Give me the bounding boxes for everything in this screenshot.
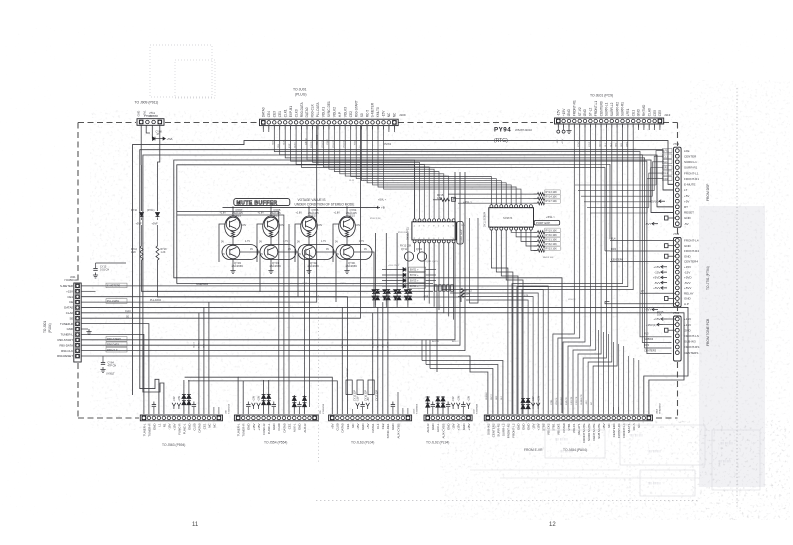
- connector JT16 pin: [675, 286, 679, 290]
- diode pair BY14 left: [404, 296, 408, 300]
- svg-text:GND: GND: [187, 424, 191, 431]
- connector JT12 pin: [675, 182, 679, 186]
- wire: [668, 217, 675, 219]
- svg-text:+15V: +15V: [253, 395, 256, 401]
- connector J001 pin: [75, 289, 79, 293]
- wire: [613, 407, 615, 414]
- IC IY01 bottom pin: [447, 240, 450, 243]
- wire J109 stub: [393, 126, 395, 132]
- wire CE1: [81, 297, 347, 414]
- wire J113 pin stub: [643, 124, 645, 128]
- power arrow -5V: [652, 222, 658, 225]
- svg-text:RY13 10K: RY13 10K: [400, 245, 412, 248]
- connector JT16 pin: [675, 276, 679, 280]
- svg-text:+15V: +15V: [178, 395, 181, 401]
- wire CY13 top: [96, 262, 127, 264]
- connector JT12 pin: [675, 188, 679, 192]
- wire J109 to IC2: [356, 126, 496, 205]
- svg-text:47P CH: 47P CH: [108, 364, 117, 367]
- net label PLL-DATA: [106, 299, 127, 304]
- junction dot on +B bus: [308, 207, 310, 209]
- wire frame loop to IC1: [177, 165, 415, 284]
- wire to resistor: [534, 202, 538, 204]
- svg-text:SURR-L1: SURR-L1: [684, 160, 697, 164]
- diode pair element: [526, 399, 530, 403]
- svg-text:NC: NC: [387, 112, 391, 117]
- capacitor CY17 box: [368, 380, 374, 395]
- wire JA54 riser: [628, 356, 630, 414]
- wire diode out: [157, 218, 159, 221]
- wire J109 pin stub: [393, 126, 395, 130]
- IC IY01 bottom pin: [433, 240, 436, 243]
- svg-text:R90-CLK: R90-CLK: [311, 103, 315, 117]
- svg-text:B: B: [452, 198, 454, 202]
- svg-text:SURR-L1: SURR-L1: [605, 102, 609, 116]
- wire to diode: [382, 269, 403, 271]
- wire: [362, 407, 364, 414]
- svg-text:VOLK2: VOLK2: [333, 107, 337, 118]
- diode pair AY04 right: [408, 290, 412, 294]
- connector J001 pin: [75, 284, 79, 288]
- wire DATA0 riser: [203, 307, 205, 414]
- IC SC9674 top pin: [515, 205, 518, 208]
- svg-text:RHTMD: RHTMD: [642, 104, 646, 116]
- svg-text:CLK1: CLK1: [283, 109, 287, 117]
- wire: [557, 124, 559, 130]
- wire through diode pair: [396, 283, 398, 305]
- svg-text:SURR-R1: SURR-R1: [684, 166, 698, 170]
- svg-text:STB: STB: [524, 295, 529, 297]
- svg-text:TO JL63 (PL04): TO JL63 (PL04): [351, 441, 374, 445]
- wire net LFE1: [575, 151, 663, 185]
- wire AUX-CYBS riser: [397, 392, 399, 414]
- wire J109 pin stub: [333, 126, 335, 130]
- svg-text:BY02 +: BY02 +: [410, 273, 419, 277]
- svg-text:CE1: CE1: [202, 423, 206, 429]
- label box PORT EXP vertical: [457, 222, 463, 245]
- wire to resistor: [534, 245, 538, 247]
- wire nest hook: [429, 340, 431, 369]
- connector JL92: [424, 415, 472, 421]
- svg-text:FROM TONE PCB: FROM TONE PCB: [706, 318, 710, 346]
- svg-text:DATA0: DATA0: [262, 107, 266, 117]
- wire J109 stub: [388, 126, 390, 132]
- resistor RY15 1.5K: [441, 198, 450, 201]
- svg-text:IY01: IY01: [461, 225, 466, 227]
- svg-text:RELAY1: RELAY1: [577, 423, 581, 434]
- ground mute cell: [268, 268, 273, 274]
- wire to diode pair: [396, 233, 398, 283]
- wire TUNER-L: [81, 334, 144, 414]
- svg-text:+5VL <: +5VL <: [378, 198, 387, 202]
- connector JT12 pin: [675, 222, 679, 226]
- wire nest to JA54 pin4: [422, 361, 503, 415]
- svg-text:-15V: -15V: [684, 270, 690, 274]
- wire DATA0 deep drop: [177, 215, 284, 414]
- wire: [153, 407, 155, 414]
- voltage feed arrow: [467, 403, 471, 409]
- svg-text:CENTER4: CENTER4: [612, 423, 616, 437]
- wire nest hook: [421, 340, 423, 361]
- resistor RY32: [538, 244, 545, 247]
- IC IY01 top pin: [447, 219, 450, 222]
- wire diode pair to bus: [375, 305, 377, 307]
- svg-text:CL11: CL11: [349, 180, 355, 182]
- svg-text:CENT MUTE: CENT MUTE: [592, 423, 596, 440]
- resistor RY17: [538, 202, 545, 205]
- connector JT15 pin: [675, 323, 679, 327]
- svg-text:SURR-R2: SURR-R2: [496, 423, 500, 436]
- svg-text:SUB-W3: SUB-W3: [684, 340, 696, 344]
- svg-text:DATA0: DATA0: [341, 423, 345, 432]
- svg-text:-15V: -15V: [382, 110, 386, 118]
- wire JA54 riser: [623, 346, 625, 414]
- wire net CL1: [578, 156, 663, 190]
- svg-text:CE1: CE1: [287, 423, 291, 429]
- wire JT11 pin1 to DY10: [140, 126, 142, 166]
- connector JT16 pin: [675, 239, 679, 243]
- net label R90-CLK: [106, 347, 127, 352]
- svg-text:TO J909 (P911): TO J909 (P911): [135, 101, 159, 105]
- arrow +5VL: [163, 137, 165, 140]
- svg-text:+15V: +15V: [684, 317, 691, 321]
- svg-text:0V/X2: 0V/X2: [384, 142, 392, 146]
- capacitor CY10 box: [346, 380, 352, 395]
- net stub SL1: [663, 160, 673, 164]
- wire J109 to IC2: [367, 126, 506, 205]
- svg-text:CE1: CE1: [278, 111, 282, 117]
- wire net CR1: [590, 179, 663, 213]
- svg-text:-5VY: -5VY: [645, 308, 652, 312]
- svg-text:0V: 0V: [260, 253, 263, 256]
- wire net FR4: [610, 250, 675, 252]
- connector JT16 pin: [675, 302, 679, 306]
- wire JA54 riser staircase: [466, 300, 528, 414]
- svg-text:CY18 5P: CY18 5P: [347, 368, 349, 377]
- svg-text:+5VF: +5VF: [152, 222, 159, 226]
- label BY04: [409, 284, 426, 289]
- terminal box B: [452, 197, 456, 201]
- wire J113 pin stub: [616, 124, 618, 128]
- svg-text:PLL-DATA: PLL-DATA: [107, 299, 119, 303]
- wire RELAY net: [640, 292, 675, 294]
- net stub CL1: [663, 154, 673, 158]
- wire E-MUTE stub: [668, 183, 674, 185]
- wire +B bus: [223, 206, 378, 208]
- svg-text:GND: GND: [247, 424, 251, 431]
- wire +B to transistor: [232, 207, 234, 216]
- IC SC9674 top pin: [510, 205, 513, 208]
- diode pair AY02 left: [383, 290, 387, 294]
- svg-text:FROM E-VR: FROM E-VR: [524, 448, 543, 452]
- wire J113 stub: [659, 124, 661, 130]
- voltage feed arrow: [451, 403, 455, 409]
- diode pair element: [182, 401, 186, 405]
- capacitor: [431, 405, 435, 407]
- svg-text:GND: GND: [684, 297, 692, 301]
- resistor RY22: [461, 289, 464, 298]
- svg-text:0V: 0V: [288, 248, 291, 251]
- svg-text:SUBW3: SUBW3: [644, 337, 654, 341]
- resistor RY13: [538, 193, 545, 196]
- svg-text:VOLCK2: VOLCK2: [547, 423, 551, 435]
- svg-text:R90-START: R90-START: [354, 100, 358, 117]
- connector JT12 pin: [675, 199, 679, 203]
- connector JT15 pin: [675, 351, 679, 355]
- IC IY01 bottom pin: [413, 240, 416, 243]
- svg-text:R90-DATA: R90-DATA: [300, 101, 304, 117]
- svg-text:S0: S0: [69, 316, 73, 320]
- IC SC9674 bottom pin: [529, 227, 532, 230]
- connector JA54: [484, 415, 652, 421]
- capacitor CY16 box: [357, 380, 363, 395]
- wire J109 pin6 to JT15 CENTER3: [291, 126, 672, 354]
- svg-text:0.01 CH: 0.01 CH: [100, 268, 109, 271]
- svg-text:CL1.0: CL1.0: [194, 341, 196, 348]
- wire J109 pin stub: [372, 126, 374, 130]
- svg-text:1.2K: 1.2K: [131, 251, 136, 254]
- resistor RY30: [538, 235, 545, 238]
- svg-text:(PLUG): (PLUG): [295, 93, 307, 97]
- svg-text:UNDER CONDITION OF STEREO MODE: UNDER CONDITION OF STEREO MODE: [295, 203, 355, 207]
- power arrow -5VV: [661, 281, 667, 284]
- svg-text:LFE: LFE: [684, 149, 690, 153]
- svg-text:+15V: +15V: [258, 395, 261, 401]
- diode pair element: [426, 403, 430, 407]
- connector JT16 pin: [675, 260, 679, 264]
- svg-text:GND: GND: [684, 244, 692, 248]
- connector JT15 pin: [675, 334, 679, 338]
- wire J109 pin4 to JT15 SUBW3: [280, 126, 672, 342]
- svg-text:ST-L2: ST-L2: [589, 107, 593, 116]
- svg-text:VOLCK: VOLCK: [568, 299, 576, 301]
- svg-text:FRONT-R1: FRONT-R1: [684, 177, 699, 181]
- wire output: [316, 252, 336, 302]
- wire to diode: [382, 274, 403, 276]
- svg-text:0V: 0V: [326, 248, 329, 251]
- wire to DY11: [157, 165, 159, 211]
- IC IY01 top pin: [442, 219, 445, 222]
- svg-text:CE2: CE2: [381, 423, 385, 429]
- PCB outline dashed border right side: [677, 123, 679, 419]
- svg-text:VOLCK1: VOLCK1: [557, 423, 561, 435]
- wire AUX deep drop: [309, 250, 311, 407]
- svg-text:R90-CLK: R90-CLK: [107, 348, 118, 352]
- wire from diode: [426, 280, 437, 282]
- wire +15V stub JT15: [663, 324, 675, 326]
- svg-text:CENTERS: CENTERS: [684, 351, 698, 355]
- svg-text:4.8V: 4.8V: [317, 224, 322, 227]
- svg-text:||||| |||| |||||: ||||| |||| |||||: [720, 441, 733, 445]
- ground CY64: [100, 367, 105, 373]
- wire J113 pin stub: [589, 124, 591, 128]
- svg-text:-15V: -15V: [356, 423, 360, 429]
- svg-text:DY10: DY10: [131, 209, 138, 212]
- svg-text:(DY11): (DY11): [147, 209, 155, 212]
- connector JT16 pin: [675, 244, 679, 248]
- svg-text:+5VL CNLY: +5VL CNLY: [388, 265, 400, 267]
- svg-text:TUNER-L: TUNER-L: [237, 423, 241, 436]
- wire stub: [402, 408, 404, 414]
- svg-text:TO JE01 (PC9): TO JE01 (PC9): [590, 94, 613, 98]
- wire S0: [81, 126, 360, 318]
- svg-text:RY33 10K: RY33 10K: [546, 248, 558, 251]
- voltage feed arrow: [252, 403, 256, 409]
- svg-text:0V: 0V: [222, 253, 225, 256]
- wire through diode pair: [375, 283, 377, 305]
- svg-text:+15V: +15V: [684, 323, 691, 327]
- svg-text:R90-RESET: R90-RESET: [57, 354, 73, 358]
- wire J109 to IC1: [323, 126, 429, 219]
- wire to resistor: [157, 225, 159, 246]
- svg-text:MULT1: MULT1: [627, 423, 631, 433]
- wire to ground: [346, 259, 348, 268]
- resistor emitter QY04: [345, 231, 348, 237]
- wire resistor feed: [458, 202, 538, 204]
- wire J109 pin stub: [295, 126, 297, 130]
- svg-text:SYNC: SYNC: [327, 139, 329, 145]
- connector JT12 body: [674, 147, 682, 227]
- svg-text:TO J563 (P594): TO J563 (P594): [162, 443, 185, 447]
- svg-text:CE5: CE5: [653, 110, 657, 116]
- svg-text:RY31 10K: RY31 10K: [546, 238, 558, 241]
- connector JT16 pin: [675, 291, 679, 295]
- connector J001 pin: [75, 343, 79, 347]
- svg-text:0V: 0V: [250, 248, 253, 251]
- svg-text:FRONT-R4: FRONT-R4: [684, 249, 699, 253]
- capacitor: [446, 405, 450, 407]
- wire: [447, 407, 449, 414]
- wire output: [240, 252, 260, 292]
- IC IY01 top pin: [452, 219, 455, 222]
- svg-text:CE1: CE1: [67, 295, 73, 299]
- wire J113 pin stub: [659, 124, 661, 128]
- svg-text:CLA0: CLA0: [647, 108, 651, 116]
- capacitor CY64: [101, 363, 105, 365]
- svg-text:4.8V: 4.8V: [241, 224, 246, 227]
- wire J109 to IC2: [351, 126, 492, 205]
- svg-text:+15V: +15V: [562, 108, 566, 116]
- wire IC1 pin drop: [443, 243, 445, 313]
- voltage feed arrow: [177, 403, 181, 409]
- svg-text:SUBW2: SUBW2: [486, 391, 488, 400]
- svg-text:AUX-R: AUX-R: [303, 424, 307, 433]
- svg-text:CLA0: CLA0: [66, 311, 74, 315]
- wire to resistor: [534, 231, 538, 233]
- diode DY10: [140, 213, 144, 217]
- connector JT15 pin: [675, 345, 679, 349]
- svg-text:FRONT-L4: FRONT-L4: [622, 423, 626, 438]
- svg-text:VOLC1: VOLC1: [572, 423, 576, 433]
- diode pair element: [441, 403, 445, 407]
- transistor QY11: [404, 252, 413, 261]
- svg-text:+1.8V: +1.8V: [334, 211, 341, 214]
- diode pair BY14 right: [408, 296, 412, 300]
- svg-text:+5VD: +5VD: [653, 276, 661, 280]
- svg-text:S-METER: S-METER: [60, 284, 73, 288]
- svg-text:-5VY: -5VY: [645, 222, 652, 226]
- wire RESET stub: [651, 211, 674, 213]
- IC IY01 top pin: [413, 219, 416, 222]
- svg-text:KE1S: KE1S: [349, 215, 356, 218]
- svg-text:GND: GND: [522, 424, 526, 431]
- transistor QY21: [417, 252, 426, 261]
- wire to CY13: [95, 263, 97, 268]
- diode pair BY13 right: [397, 296, 401, 300]
- svg-text:AUX-CYBS: AUX-CYBS: [441, 423, 445, 438]
- svg-text:-5V: -5V: [684, 222, 689, 226]
- wire J109 to IC2: [362, 126, 502, 205]
- svg-text:FUNC-R: FUNC-R: [262, 424, 266, 435]
- wire to ground: [270, 259, 272, 268]
- svg-text:UY03 QY11 QY21: UY03 QY11 QY21: [420, 261, 438, 263]
- svg-text:TUNER-R: TUNER-R: [60, 322, 73, 326]
- diode pair element: [436, 397, 440, 401]
- ground mute cell: [344, 268, 349, 274]
- wire from diode: [426, 274, 437, 276]
- svg-text:YJS09210: YJS09210: [323, 403, 325, 414]
- wire A.P net: [605, 302, 675, 304]
- svg-text:AUX-Y: AUX-Y: [452, 340, 459, 343]
- svg-text:+15V: +15V: [252, 423, 256, 430]
- wire IC2 pin to resistor: [531, 230, 538, 250]
- wire TUNER-L to bus: [185, 377, 239, 414]
- wire J113 pin stub: [557, 124, 559, 128]
- connector J001 pin: [75, 300, 79, 304]
- svg-text:0V: 0V: [335, 241, 338, 244]
- IC SC9674 top pin: [505, 205, 508, 208]
- resistor RY10 1.2K: [140, 246, 143, 260]
- power arrow -5VY: [652, 308, 658, 311]
- label box PORT EXP horizontal: [534, 220, 560, 225]
- wire to resistor: [534, 250, 538, 252]
- wire FUNC-L riser: [188, 380, 190, 414]
- junction dot on +B bus: [346, 207, 348, 209]
- diode pair element: [521, 399, 525, 403]
- capacitor CY13: [93, 269, 97, 271]
- connector JT16 pin: [675, 265, 679, 269]
- wire R90-CLK: [81, 172, 465, 351]
- label BY03: [409, 278, 426, 283]
- power arrow +15V: [661, 318, 667, 321]
- wire J109 pin stub: [388, 126, 390, 130]
- diode pair element: [303, 397, 307, 401]
- svg-text:0V: 0V: [259, 241, 262, 244]
- wire JA54 riser: [603, 332, 605, 414]
- resistor emitter QY05: [269, 231, 272, 237]
- wire to resistor: [534, 198, 538, 200]
- svg-text:JT16: JT16: [673, 232, 680, 236]
- wire net CENTER4: [610, 261, 675, 263]
- net label R90-START: [106, 337, 127, 342]
- svg-text:FUNC-L: FUNC-L: [182, 423, 186, 434]
- svg-text:C.MUTE: C.MUTE: [576, 396, 578, 405]
- svg-text:-15V: -15V: [452, 396, 455, 401]
- svg-text:RY32 10K: RY32 10K: [546, 243, 558, 246]
- wire JA54 riser staircase: [434, 286, 548, 414]
- wire JA54 riser staircase: [458, 297, 533, 415]
- svg-text:SURR-R2: SURR-R2: [615, 102, 619, 116]
- diode pair element: [292, 403, 296, 407]
- capacitor: [246, 405, 250, 407]
- svg-text:EXP-B1: EXP-B1: [289, 106, 293, 118]
- diode pair element: [267, 395, 271, 399]
- svg-text:R90-CLK: R90-CLK: [61, 349, 73, 353]
- wire resistor feed: [448, 193, 538, 195]
- wire to CY64: [102, 356, 104, 362]
- resistor RY19: [538, 231, 545, 234]
- svg-text:VOLK3: VOLK3: [343, 107, 347, 118]
